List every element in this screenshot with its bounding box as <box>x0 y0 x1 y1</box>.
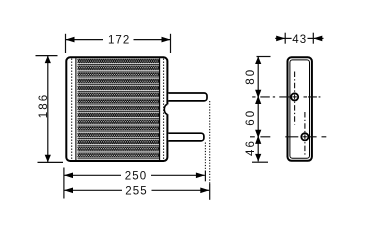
svg-text:46: 46 <box>245 139 257 156</box>
vertical centerline pipe 2 <box>304 112 306 156</box>
notch on right edge <box>164 104 169 114</box>
outlet pipe (lower) <box>168 133 204 141</box>
heater core body outline <box>66 57 167 161</box>
fin core rows <box>78 59 160 159</box>
side body inner <box>290 60 310 158</box>
dimension 250 (bottom) <box>64 168 205 199</box>
horizontal centerline pipe 1 <box>252 96 320 98</box>
extension line to upper pipe end <box>209 101 211 200</box>
dimension chain 80/60/46 (left of side view) <box>245 57 271 163</box>
pipe port circle 1 <box>291 93 298 100</box>
dimension 172 (top) <box>66 34 171 53</box>
svg-text:186: 186 <box>38 93 50 119</box>
left header plate <box>72 58 76 160</box>
svg-text:172: 172 <box>108 34 131 46</box>
dimension 43 (top of side view) <box>275 33 323 46</box>
svg-text:80: 80 <box>245 68 257 85</box>
dimension 255 (bottom) <box>64 185 209 197</box>
svg-text:255: 255 <box>125 185 148 197</box>
vertical centerline pipe 1 <box>294 72 296 125</box>
horizontal centerline pipe 2 <box>250 136 326 138</box>
dimension 186 (left) <box>36 56 64 163</box>
extension line to lower pipe end <box>204 143 206 182</box>
svg-text:43: 43 <box>292 34 307 46</box>
right header plate <box>160 58 164 160</box>
svg-text:250: 250 <box>125 170 148 182</box>
side body outer <box>288 57 312 161</box>
svg-text:60: 60 <box>245 109 257 126</box>
inlet pipe (upper) <box>168 93 207 101</box>
pipe port circle 2 <box>301 133 308 140</box>
